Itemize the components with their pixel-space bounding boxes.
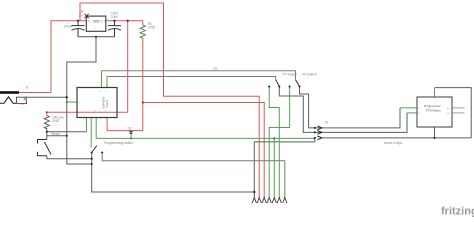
svg-text:IN: IN (88, 20, 91, 23)
svg-text:TX Switch: TX Switch (283, 72, 298, 76)
svg-text:5V: 5V (79, 14, 83, 18)
svg-text:10uF: 10uF (111, 15, 118, 19)
svg-text:fritzing: fritzing (441, 206, 474, 218)
svg-text:Module: Module (106, 99, 109, 108)
svg-text:J1: J1 (25, 86, 29, 90)
svg-text:rxd: rxd (213, 67, 218, 71)
svg-text:Avoid rx dips: Avoid rx dips (384, 141, 403, 145)
svg-text:Programmer: Programmer (424, 104, 441, 108)
svg-text:FTDI Basic: FTDI Basic (426, 109, 441, 113)
svg-text:7805: 7805 (92, 20, 99, 24)
svg-text:GND: GND (148, 26, 156, 30)
svg-text:J3: J3 (325, 120, 329, 124)
svg-text:Reset: Reset (52, 132, 60, 136)
svg-text:GND: GND (52, 119, 60, 123)
svg-text:S2: S2 (128, 127, 132, 131)
svg-text:Kit Switch: Kit Switch (303, 72, 317, 76)
svg-text:ESP8266: ESP8266 (102, 96, 106, 108)
svg-text:G: G (95, 28, 97, 31)
svg-text:Programming switch: Programming switch (104, 141, 133, 145)
